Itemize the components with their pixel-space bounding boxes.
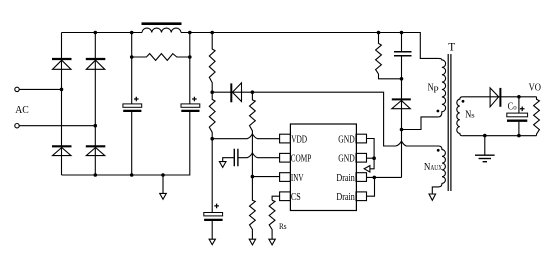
wire VDD with hop bbox=[212, 134, 279, 139]
diode D3 bridge bottom-left bbox=[52, 146, 72, 155]
node snubber mid bbox=[400, 77, 404, 81]
node L1 left bbox=[130, 31, 134, 35]
ground VDD cap bbox=[209, 239, 215, 245]
resistor R1 across L1 bbox=[132, 54, 190, 61]
wire cap C2 branch bbox=[189, 33, 191, 104]
pin VDD bbox=[280, 134, 291, 143]
node ground tap bbox=[161, 173, 165, 177]
wire bridge left column bbox=[61, 33, 63, 176]
transformer T core bbox=[448, 54, 451, 191]
node bridge right bottom bbox=[94, 173, 98, 177]
ground IC left-arrow bbox=[364, 158, 374, 172]
node R1 left bbox=[130, 55, 134, 59]
wire output bottom rail bbox=[463, 135, 537, 137]
svg-text:NAUX: NAUX bbox=[424, 162, 442, 173]
pin CS bbox=[280, 192, 291, 201]
svg-text:Ns: Ns bbox=[465, 110, 475, 121]
wire cap C1 branch bbox=[131, 33, 133, 176]
node INV bbox=[251, 175, 255, 179]
Naux phase dot bbox=[437, 149, 440, 152]
wire Drain1 bbox=[367, 176, 402, 178]
node Drain bbox=[373, 176, 377, 180]
pin Drain 1 bbox=[356, 173, 367, 182]
ground comp bbox=[219, 162, 226, 168]
resistor R4 divider upper bbox=[249, 92, 255, 176]
wire switch node bbox=[401, 130, 403, 178]
wire Co branch bbox=[518, 97, 520, 136]
ground Rs bbox=[269, 239, 275, 245]
diode D4 bridge bottom-right bbox=[86, 146, 106, 155]
svg-text:INV: INV bbox=[291, 173, 304, 184]
wire C3 branch bbox=[211, 139, 213, 240]
pin INV bbox=[280, 173, 291, 182]
diode D7 output bbox=[490, 88, 500, 107]
wire Drain2 bbox=[367, 177, 375, 196]
ground input filter bbox=[160, 175, 167, 199]
winding Ns bbox=[457, 97, 463, 136]
wire C4 to ground bbox=[223, 158, 235, 162]
resistor R8 load bbox=[534, 97, 540, 136]
IC U1 body bbox=[290, 124, 356, 211]
Np phase dot bbox=[437, 110, 440, 113]
pin GND 1 bbox=[356, 134, 367, 143]
wire GND2 bbox=[367, 157, 375, 159]
node VDD supply bbox=[210, 137, 214, 141]
diode D1 bridge top-left bbox=[52, 59, 72, 69]
svg-text:Np: Np bbox=[428, 82, 439, 93]
node C1 bottom bbox=[130, 173, 134, 177]
svg-text:VDD: VDD bbox=[291, 134, 307, 145]
pin COMP bbox=[280, 153, 291, 162]
node Co top bbox=[517, 95, 521, 99]
svg-text:Drain: Drain bbox=[336, 192, 355, 203]
C6 polarity bbox=[520, 107, 525, 112]
ground Naux bbox=[429, 194, 436, 200]
diode D5 VDD rectifier bbox=[212, 83, 252, 102]
node AC top junction bbox=[60, 88, 64, 92]
C2 polarity bbox=[192, 97, 197, 102]
node divider top bbox=[251, 90, 255, 94]
winding Np bbox=[438, 58, 445, 117]
ground divider bbox=[249, 239, 255, 245]
ground output earth bbox=[475, 136, 495, 162]
resistor R5 divider lower bbox=[249, 177, 255, 240]
svg-text:VO: VO bbox=[529, 82, 541, 93]
node bridge right top bbox=[94, 31, 98, 35]
pin Drain 2 bbox=[356, 192, 367, 201]
node Co bottom bbox=[517, 134, 521, 138]
svg-text:Drain: Drain bbox=[336, 173, 355, 184]
svg-text:T: T bbox=[448, 41, 455, 53]
resistor R6 Rs bbox=[269, 200, 275, 239]
svg-text:Co: Co bbox=[508, 102, 517, 113]
resistor R2 startup upper bbox=[209, 33, 215, 93]
wire COMP with hop bbox=[238, 153, 280, 158]
Ns phase dot bbox=[462, 100, 465, 103]
inductor L1 bbox=[142, 28, 181, 32]
AC terminal bottom bbox=[15, 124, 19, 128]
AC terminal top bbox=[15, 87, 19, 91]
wire AC bottom bbox=[19, 125, 95, 127]
C3 polarity bbox=[214, 204, 219, 209]
wire aux supply to Naux bbox=[252, 92, 438, 146]
wire DC bus top left bbox=[62, 32, 143, 34]
capacitor C5 snubber bbox=[394, 33, 412, 79]
wire bottom rail bbox=[62, 111, 190, 175]
diode D6 snubber bbox=[392, 79, 411, 130]
node rail C5 bbox=[400, 31, 404, 35]
wire AC top bbox=[19, 88, 61, 90]
node AC bottom junction bbox=[94, 124, 98, 128]
node snubber bottom bbox=[400, 128, 404, 132]
capacitor C1 bbox=[123, 104, 142, 111]
resistor R7 snubber bbox=[376, 33, 402, 79]
node output ground bbox=[483, 134, 487, 138]
wire bridge right column bbox=[94, 33, 96, 176]
winding Naux bbox=[432, 146, 445, 194]
node rail R7 bbox=[377, 31, 381, 35]
diode D2 bridge top-right bbox=[86, 59, 106, 69]
node GND bbox=[372, 156, 376, 160]
capacitor C6 Co bbox=[507, 113, 528, 121]
capacitor C4 comp bbox=[234, 149, 238, 167]
wire INV bbox=[252, 176, 279, 178]
resistor R3 startup lower bbox=[209, 92, 215, 139]
wire GND1 bbox=[367, 139, 375, 159]
node L1 right bbox=[188, 31, 192, 35]
pin GND 2 bbox=[356, 153, 367, 162]
node startup top bbox=[210, 31, 214, 35]
wire DC bus top right bbox=[181, 33, 439, 59]
node R1 right bbox=[188, 55, 192, 59]
wire CS bbox=[272, 196, 280, 200]
svg-text:GND: GND bbox=[338, 154, 355, 165]
capacitor C3 VDD bbox=[204, 213, 223, 220]
node startup mid bbox=[210, 90, 214, 94]
svg-text:Rs: Rs bbox=[279, 221, 287, 231]
svg-text:GND: GND bbox=[338, 134, 355, 145]
svg-text:CS: CS bbox=[291, 192, 301, 203]
wire Np bottom link bbox=[402, 117, 439, 130]
inductor L1 core bar bbox=[142, 22, 182, 25]
wire Ns top to output bbox=[463, 96, 537, 98]
C1 polarity bbox=[134, 97, 139, 102]
capacitor C2 bbox=[181, 104, 200, 111]
svg-text:AC: AC bbox=[15, 104, 29, 116]
svg-text:COMP: COMP bbox=[291, 154, 312, 165]
